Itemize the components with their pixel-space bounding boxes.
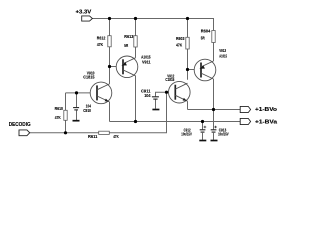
capacitor C913: [211, 126, 229, 137]
svg-text:5R: 5R: [201, 36, 205, 41]
wire R612 column top: [109, 19, 111, 36]
wire V912 base: [167, 91, 176, 93]
svg-text:5R: 5R: [124, 43, 128, 48]
wire output rail A: [188, 109, 241, 111]
svg-text:47K: 47K: [113, 134, 119, 139]
junction C910: [75, 91, 78, 94]
wire C912 stub: [202, 122, 204, 140]
svg-text:R613: R613: [124, 34, 133, 39]
svg-text:C1815: C1815: [165, 77, 174, 82]
wire top rail +3.3V: [93, 19, 214, 31]
svg-text:+1-BVo: +1-BVo: [255, 107, 278, 113]
wire R603 column top: [187, 19, 189, 38]
junction V911 base: [108, 65, 111, 68]
wire V911 base: [110, 66, 124, 68]
transistor V910 C1815 NPN: [83, 70, 112, 103]
resistor R613: [124, 34, 137, 48]
port DECODIG: [9, 122, 31, 136]
junction R610 bottom: [64, 131, 67, 134]
svg-text:104: 104: [144, 93, 151, 98]
wire R613 bottom to V911 emitter: [135, 47, 137, 58]
capacitor C910: [73, 104, 91, 113]
svg-text:DECODIG: DECODIG: [9, 122, 31, 128]
capacitor C911: [141, 88, 159, 99]
transistor V911 A1015 PNP: [116, 54, 151, 77]
wire R603 bottom to V912 collector: [187, 49, 189, 80]
resistor R610: [55, 106, 68, 120]
junction V912 base riser: [165, 91, 168, 94]
ground C910: [73, 120, 80, 122]
svg-text:R603: R603: [176, 36, 185, 41]
svg-text:47K: 47K: [176, 43, 183, 48]
capacitor C912: [181, 126, 206, 137]
wire R612 bottom through V911 base node to V910 collector: [109, 47, 111, 84]
junction top R613: [134, 17, 137, 20]
wire R613 column top: [135, 19, 137, 36]
wire C910 stub: [76, 93, 78, 120]
svg-text:R612: R612: [97, 36, 106, 41]
svg-text:R611: R611: [88, 134, 98, 139]
junction top R612: [108, 17, 111, 20]
svg-text:C910: C910: [83, 108, 91, 113]
ground C913: [211, 140, 218, 142]
resistor R604: [201, 29, 215, 43]
transistor V912 C1815 NPN: [165, 73, 190, 103]
ground C911: [152, 109, 159, 111]
junction V913 base: [186, 68, 189, 71]
svg-text:R604: R604: [201, 29, 211, 34]
junction V911 collector: [134, 120, 137, 123]
wire R610 column: [65, 93, 67, 133]
wire C911 branch: [156, 92, 167, 108]
svg-text:A1015: A1015: [219, 54, 227, 59]
resistor R611: [88, 131, 119, 139]
junction V913 collector: [212, 108, 215, 111]
port +1-BVa: [240, 118, 278, 125]
resistor R603: [176, 36, 189, 49]
svg-text:10u/15V: 10u/15V: [218, 132, 229, 137]
svg-text:47K: 47K: [97, 42, 104, 47]
svg-text:R610: R610: [55, 106, 64, 111]
resistor R612: [97, 36, 111, 47]
transistor V913 A1015 PNP: [194, 48, 227, 81]
wire R604 bottom to V913 emitter: [213, 43, 215, 62]
svg-text:+3.3V: +3.3V: [76, 9, 92, 15]
svg-text:+1-BVa: +1-BVa: [255, 120, 278, 126]
wire V911 collector down: [135, 76, 137, 122]
ground C912: [199, 140, 206, 142]
wire V913 base: [188, 69, 202, 71]
junction top R603: [186, 17, 189, 20]
wire V913 collector down to C913: [213, 79, 215, 129]
junction C912: [201, 120, 204, 123]
wire V912 emitter down: [187, 101, 189, 109]
wire output rail B: [110, 121, 241, 123]
svg-text:V913: V913: [219, 48, 226, 53]
svg-text:C1815: C1815: [83, 75, 95, 80]
svg-text:47K: 47K: [55, 115, 61, 120]
port +1-BVo: [240, 106, 278, 113]
wire bottom input with riser to V912 base: [30, 92, 167, 133]
wire V910 emitter to B rail: [109, 102, 111, 122]
power flag +3.3V: [76, 9, 93, 21]
svg-text:V911: V911: [142, 59, 151, 64]
wire V910 base: [66, 92, 98, 94]
wire C913 lower stub: [213, 133, 215, 140]
svg-text:10u/15V: 10u/15V: [181, 132, 192, 137]
